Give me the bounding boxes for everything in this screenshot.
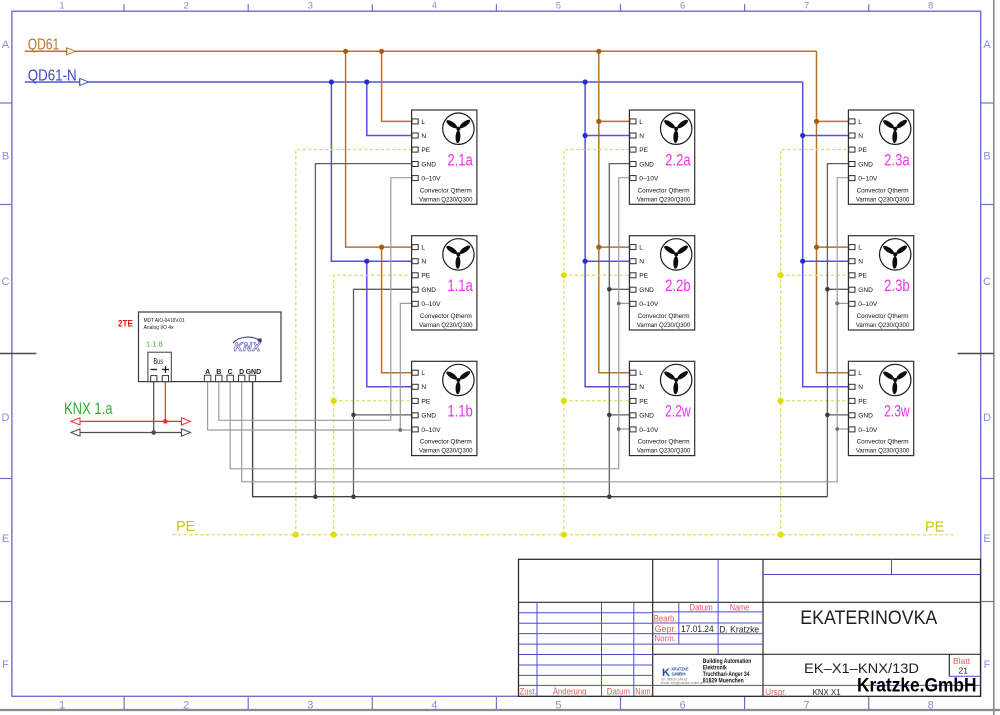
0-10V channel D wire (units 2.3a/b/w): [242, 178, 849, 482]
KNX bus - wire (dark): [71, 382, 191, 433]
svg-text:Elektronik: Elektronik: [703, 665, 728, 671]
svg-text:Bearb.: Bearb.: [654, 614, 677, 624]
wire N feed column 2: [585, 82, 629, 387]
PE riser column 1 row 1: [296, 150, 412, 535]
title block red labels: [520, 602, 972, 697]
junction dots L column 2: [596, 49, 601, 250]
svg-text:Datum: Datum: [607, 687, 630, 697]
svg-text:3: 3: [308, 0, 313, 11]
PE junction dots: [293, 272, 784, 538]
svg-text:1.1b: 1.1b: [447, 402, 473, 421]
svg-text:C: C: [983, 276, 991, 288]
outer trim border bottom: [0, 709, 1000, 711]
PE riser column 2: [564, 150, 630, 535]
svg-text:A: A: [983, 39, 991, 51]
wire L feed column 1 row 1: [382, 51, 412, 121]
convector unit 1.1a: [412, 236, 477, 330]
svg-text:2TE: 2TE: [118, 319, 133, 329]
svg-text:D: D: [239, 369, 244, 376]
convector unit 2.3b: [848, 236, 913, 330]
title block: [519, 559, 981, 696]
svg-text:8: 8: [928, 0, 933, 11]
svg-text:C: C: [2, 276, 10, 288]
svg-text:A: A: [2, 39, 10, 51]
svg-text:7: 7: [804, 700, 810, 712]
junction dots N column 2: [583, 79, 588, 263]
title block black texts: [681, 607, 968, 697]
svg-text:2.3w: 2.3w: [884, 402, 910, 421]
svg-text:2.3b: 2.3b: [884, 276, 910, 295]
svg-text:4: 4: [432, 0, 437, 11]
svg-text:Zust.: Zust.: [520, 687, 537, 697]
svg-text:2: 2: [183, 700, 189, 712]
svg-text:Urspr.: Urspr.: [765, 687, 787, 697]
svg-text:EKATERINOVKA: EKATERINOVKA: [800, 607, 937, 629]
wire N feed column 3: [803, 82, 849, 387]
svg-text:5: 5: [556, 0, 561, 11]
wire QD61 phase bus (brown): [25, 50, 817, 52]
KNX - junction dot: [151, 430, 156, 435]
svg-text:5: 5: [555, 700, 561, 712]
svg-text:PE: PE: [925, 520, 945, 536]
KNX + junction dot: [163, 419, 168, 424]
svg-text:B: B: [2, 151, 9, 163]
Bus terminals: [151, 376, 169, 382]
svg-text:Name: Name: [730, 602, 750, 612]
svg-text:F: F: [984, 659, 991, 671]
0-10V channel A wire (units 1.1a / 1.1b): [208, 303, 412, 430]
arrow marker on QD61: [67, 48, 76, 55]
svg-text:B: B: [216, 369, 221, 376]
wire N feed column 1 row 1: [367, 82, 412, 136]
svg-text:GMBH: GMBH: [672, 672, 687, 677]
wire QD61-N neutral bus (blue): [25, 81, 803, 83]
wire L feed column 1 rows 2-3: [346, 51, 412, 372]
svg-text:17.01.24: 17.01.24: [681, 624, 714, 635]
ruler row ticks right: [981, 103, 994, 602]
GND riser column 1 rows 2-3: [354, 289, 412, 496]
Bus terminal block: [148, 352, 171, 381]
svg-text:E: E: [2, 533, 9, 545]
KNX + arrowheads: [71, 418, 191, 425]
svg-text:2.1a: 2.1a: [447, 150, 473, 169]
convector unit 2.2w: [629, 361, 694, 455]
wire N feed column 1 rows 2-3: [331, 82, 411, 387]
device type text: [144, 318, 185, 331]
svg-text:Kratzke.GmbH: Kratzke.GmbH: [857, 675, 977, 697]
svg-text:PE: PE: [176, 519, 196, 535]
svg-text:6: 6: [680, 0, 685, 11]
arrow marker on QD61-N: [80, 78, 89, 85]
svg-text:KNX: KNX: [234, 340, 261, 354]
PE main bus (yellow dashed): [172, 534, 955, 536]
GND junction dots: [313, 287, 830, 499]
svg-text:D: D: [983, 412, 991, 424]
convector unit 2.2b: [629, 236, 694, 330]
svg-text:Gepr.: Gepr.: [655, 624, 677, 634]
ruler column numbers top: [59, 0, 933, 11]
fold mark tick right (dark): [958, 353, 994, 355]
0-10V channel C wire (units 2.2a/b/w): [230, 178, 629, 469]
svg-text:2.2a: 2.2a: [665, 150, 691, 169]
PE riser column 1 rows 2-3: [334, 275, 412, 535]
KNX logo: [233, 337, 262, 354]
svg-text:A: A: [205, 369, 210, 376]
output terminals A B C D GND: [204, 375, 255, 381]
PE riser column 3: [781, 150, 849, 535]
svg-text:Nam.: Nam.: [635, 687, 652, 697]
svg-text:Norm.: Norm.: [654, 634, 676, 644]
svg-text:2.2w: 2.2w: [665, 402, 691, 421]
svg-text:2.2b: 2.2b: [665, 276, 691, 295]
svg-text:1: 1: [59, 0, 64, 11]
Kratzke logo: [661, 667, 704, 686]
0-10V channel B wire (unit 2.1a): [219, 178, 412, 421]
junction dots QD61-N column 1: [329, 79, 370, 263]
svg-text:KNX X1: KNX X1: [813, 688, 842, 697]
svg-text:Building Automation: Building Automation: [703, 659, 752, 665]
junction dots QD61 column 1: [343, 49, 384, 250]
svg-text:6: 6: [679, 700, 685, 712]
wire L feed column 2: [599, 51, 630, 372]
svg-text:C: C: [228, 369, 233, 376]
svg-text:4: 4: [431, 700, 437, 712]
svg-text:Änderung: Änderung: [553, 687, 587, 697]
svg-text:3: 3: [307, 700, 313, 712]
svg-text:D: D: [2, 412, 10, 424]
ruler row ticks left: [0, 103, 12, 602]
convector unit 2.3a: [848, 110, 913, 204]
svg-text:Truchthari-Anger 34: Truchthari-Anger 34: [703, 672, 750, 678]
svg-text:MDT AIO-0410V.01: MDT AIO-0410V.01: [144, 318, 185, 324]
svg-text:1.1a: 1.1a: [447, 276, 473, 295]
svg-text:D. Kratzke: D. Kratzke: [719, 625, 759, 635]
svg-text:B: B: [983, 151, 990, 163]
svg-text:8: 8: [928, 700, 934, 712]
svg-text:Analog I/O 4x: Analog I/O 4x: [144, 325, 174, 331]
GND riser column 3: [827, 164, 848, 497]
svg-text:81829 Muenchen: 81829 Muenchen: [703, 678, 744, 684]
actuator U1 MDT AIO-0410V.01: [139, 312, 282, 382]
convector unit 2.1a: [412, 110, 477, 204]
svg-text:Email: info@kratzke-online.de: Email: info@kratzke-online.de: [661, 681, 704, 685]
junction dots N column 3: [800, 133, 805, 264]
ruler column numbers bottom: [59, 700, 934, 712]
svg-text:7: 7: [804, 0, 809, 11]
GND riser column 1 row 1: [315, 164, 411, 497]
company address: [703, 659, 752, 685]
ruler column ticks bottom: [124, 696, 869, 709]
ruler row letters right: [983, 39, 991, 671]
0-10V junction dots: [398, 302, 839, 432]
KNX bus + wire (red): [71, 382, 191, 422]
svg-text:1: 1: [59, 700, 65, 712]
junction dots L column 3: [814, 119, 819, 250]
svg-text:F: F: [2, 659, 9, 671]
fold mark tick left (dark): [0, 353, 36, 355]
svg-text:1.1.8: 1.1.8: [146, 340, 163, 349]
svg-text:KNX 1.a: KNX 1.a: [64, 399, 113, 418]
terminal labels A B C D GND: [205, 369, 261, 376]
outer trim border right: [993, 0, 995, 715]
wire L feed column 3: [817, 51, 849, 372]
convector unit 2.3w: [848, 361, 913, 455]
svg-text:2: 2: [184, 0, 189, 11]
svg-text:E: E: [983, 533, 990, 545]
KNX - arrowheads: [71, 429, 191, 436]
svg-text:Bus: Bus: [154, 357, 164, 366]
svg-text:GND: GND: [246, 369, 262, 376]
ruler column ticks top: [124, 4, 869, 11]
ruler row letters left: [2, 39, 10, 671]
convector unit 2.2a: [629, 110, 694, 204]
GND bus from MDT GND terminal: [253, 382, 828, 497]
GND riser column 2: [609, 164, 629, 497]
svg-text:Datum: Datum: [689, 602, 712, 612]
convector unit 1.1b: [412, 361, 477, 455]
svg-text:2.3a: 2.3a: [884, 150, 910, 169]
